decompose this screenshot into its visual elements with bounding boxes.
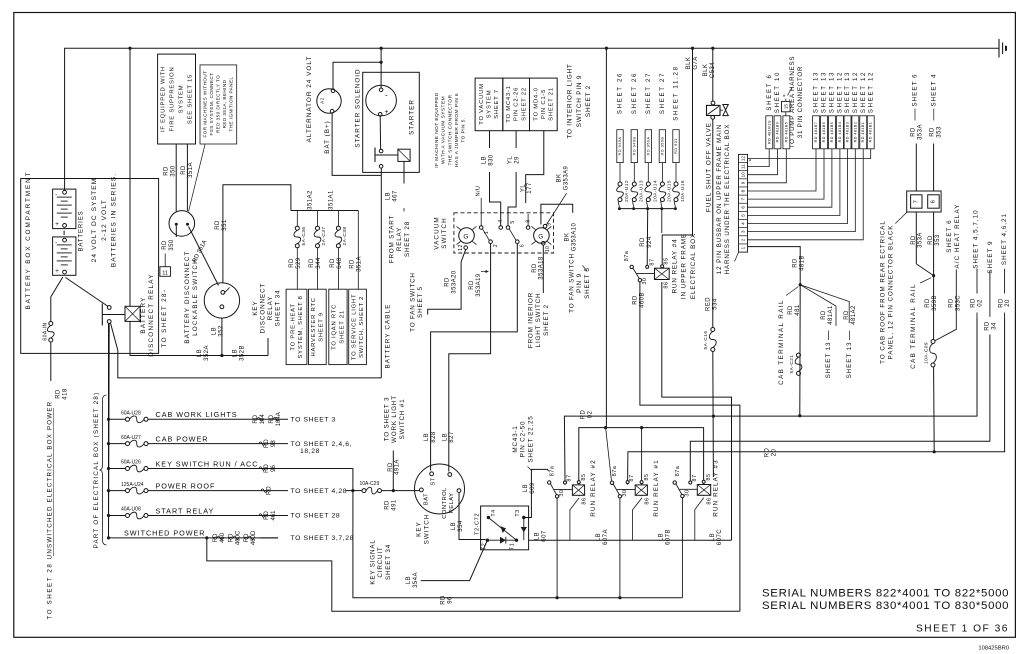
svg-text:RELAY: RELAY <box>267 296 274 321</box>
wire battery positive to disconnect relay contact <box>66 278 109 307</box>
svg-text:RD: RD <box>640 237 646 247</box>
node RD96 relay1-30 <box>618 596 621 599</box>
boxed wire label RD 481B5 <box>783 116 790 149</box>
wire to key disconnect relay <box>267 338 269 356</box>
svg-text:SHEET 21: SHEET 21 <box>339 310 345 344</box>
svg-text:RD: RD <box>289 258 295 268</box>
vacuum pin 1 <box>479 226 483 230</box>
boxed wire label RD 481B9 <box>774 116 781 149</box>
svg-text:02: 02 <box>977 299 983 307</box>
svg-text:15: 15 <box>784 104 790 110</box>
vacuum internal link 1-2 <box>483 229 490 240</box>
svg-text:FSS SYSTEM, CONNECT: FSS SYSTEM, CONNECT <box>209 73 214 136</box>
svg-text:LB: LB <box>481 156 487 164</box>
svg-text:YL: YL <box>508 156 514 164</box>
wire RD 353A into connector 7 <box>915 144 917 192</box>
wire RD 02 right label stub <box>976 269 978 294</box>
svg-text:RD: RD <box>215 220 221 230</box>
boxed wire label RD 481B1 (col 8) <box>867 116 874 149</box>
wire BLK C534 top bus to valve <box>712 48 714 101</box>
terminal box 15 <box>782 101 791 111</box>
svg-text:CONTROL: CONTROL <box>442 487 448 519</box>
svg-text:RD 481B1: RD 481B1 <box>861 122 865 143</box>
svg-text:460: 460 <box>220 532 226 543</box>
node LB352 junction <box>220 354 223 357</box>
svg-text:BK: BK <box>564 233 570 242</box>
svg-text:SHEET 13: SHEET 13 <box>821 71 828 113</box>
svg-text:RD 481B5: RD 481B5 <box>784 122 788 143</box>
connector P1 circle <box>169 211 195 237</box>
fuel shut off valve V1 <box>711 101 715 105</box>
svg-text:T4: T4 <box>491 509 497 516</box>
solenoid coil box <box>398 149 410 161</box>
svg-text:RD 950B: RD 950B <box>659 137 664 156</box>
wire fuse bus to relay4 85 (x=662 upper) <box>661 209 663 233</box>
svg-text:40A-U08: 40A-U08 <box>121 507 141 513</box>
wire RD 351A from FSS box to connector <box>186 144 188 211</box>
svg-text:353A: 353A <box>918 232 924 248</box>
wire N/U stub pin 1 <box>480 198 482 226</box>
svg-text:SHEET 34: SHEET 34 <box>385 544 392 580</box>
svg-text:607C: 607C <box>717 529 723 545</box>
node RD 353 junction <box>932 274 935 277</box>
fuse 20A-U13 <box>632 207 635 210</box>
svg-text:TO CAB ROOF FROM REAR ECTRICAL: TO CAB ROOF FROM REAR ECTRICAL <box>880 220 887 364</box>
svg-text:60A-U28: 60A-U28 <box>121 411 141 417</box>
vacuum pin 12 <box>464 246 468 250</box>
svg-text:1: 1 <box>740 246 745 249</box>
node 85 bus junction relay1 <box>640 426 643 429</box>
svg-text:THE IGNITION PANEL: THE IGNITION PANEL <box>228 77 233 132</box>
wire 85 bus y=427.6 <box>579 428 704 481</box>
svg-text:TO SHEET 3: TO SHEET 3 <box>384 397 391 442</box>
svg-text:86: 86 <box>644 497 650 504</box>
svg-text:TO SHEET 3: TO SHEET 3 <box>291 417 336 424</box>
relay K4 RUN RELAY #3 <box>697 485 710 496</box>
svg-text:RD 949A: RD 949A <box>617 137 622 156</box>
node electrical box row CAB POWER <box>107 442 110 445</box>
svg-text:SHEET 2: SHEET 2 <box>585 85 592 117</box>
svg-text:87: 87 <box>629 474 635 481</box>
svg-text:KEY: KEY <box>416 521 423 537</box>
busbar fan wires left group <box>748 149 770 167</box>
svg-text:SEE SHEET 15: SEE SHEET 15 <box>188 74 194 124</box>
node RD02/RD481 junction <box>798 414 801 417</box>
svg-text:TO SHEET 4,28: TO SHEET 4,28 <box>291 488 348 495</box>
svg-text:RD: RD <box>309 258 315 268</box>
svg-text:RD 931: RD 931 <box>673 138 678 154</box>
wire feeder 605.6 dot down to relay1 87a <box>606 428 612 481</box>
svg-text:353B: 353B <box>932 295 938 311</box>
svg-text:SHEET 2: SHEET 2 <box>543 304 550 336</box>
wire coil feed from top bus <box>129 48 131 306</box>
svg-text:11: 11 <box>162 271 168 277</box>
svg-text:8: 8 <box>525 219 531 222</box>
svg-text:TO VACUUM: TO VACUUM <box>479 83 485 125</box>
svg-text:30: 30 <box>622 489 628 496</box>
svg-text:RD 481B2: RD 481B2 <box>853 122 857 143</box>
svg-text:STARTER SOLENOID: STARTER SOLENOID <box>355 68 362 147</box>
svg-text:RUN RELAY #4: RUN RELAY #4 <box>671 238 678 293</box>
svg-text:RD: RD <box>162 240 168 250</box>
diode T3-T1 <box>523 518 525 541</box>
svg-text:VACUUM: VACUUM <box>433 216 440 249</box>
svg-text:RD: RD <box>998 298 1004 308</box>
svg-text:607: 607 <box>541 530 547 542</box>
boxed wire label RD 481B6 (col 2) <box>821 116 828 149</box>
svg-text:TO SERVICE LIGHT: TO SERVICE LIGHT <box>351 294 357 360</box>
svg-text:SHEET 6: SHEET 6 <box>946 219 953 252</box>
wire RD 353A below connector to junction <box>915 212 917 264</box>
svg-text:SHEET 13: SHEET 13 <box>813 71 820 113</box>
wire relay2 30 to RD96 bus <box>556 498 558 598</box>
svg-text:RD 481B5: RD 481B5 <box>830 122 834 143</box>
wire RD 353 into connector 6 <box>933 144 935 192</box>
wire YL 29 box to pin 5 <box>515 131 517 148</box>
destination box TO IQAN RTC SHEET 21 <box>329 289 347 364</box>
relay K1 battery disconnect relay coil <box>125 306 140 321</box>
wire row SWITCHED POWER <box>109 537 279 539</box>
node cab terminal rail RD481 <box>799 283 802 286</box>
svg-text:ELECTRICAL BOX: ELECTRICAL BOX <box>690 233 697 299</box>
svg-text:96: 96 <box>447 596 453 604</box>
diode T2-T1 <box>487 539 516 541</box>
svg-text:SWITCH: SWITCH <box>441 217 448 248</box>
wire row POWER ROOF <box>109 490 126 492</box>
svg-text:2: 2 <box>740 238 745 241</box>
svg-text:LB: LB <box>535 532 541 540</box>
solenoid motor circle <box>366 85 397 116</box>
svg-text:5: 5 <box>740 214 745 217</box>
svg-text:T3: T3 <box>515 509 521 516</box>
note box IF EQUIPPED WITH FIRE SUPPRESION SYSTEM SEE SHEET 15 <box>158 54 196 144</box>
wire solenoid + to contact <box>379 116 381 149</box>
wire RD 491A to work light switch <box>392 451 394 491</box>
boxed wire label RD 481B5 (col 3) <box>829 116 836 149</box>
vacuum pin 9 <box>543 224 547 228</box>
svg-text:LB: LB <box>442 433 448 441</box>
svg-text:RD: RD <box>788 305 794 315</box>
note box TO VACUUM SYSTEM SHEET 7 <box>475 78 503 131</box>
svg-text:87a: 87a <box>624 250 630 261</box>
svg-text:SHEET 13: SHEET 13 <box>829 71 836 113</box>
svg-text:RD: RD <box>765 448 771 458</box>
svg-text:TO MC43-1: TO MC43-1 <box>506 85 512 122</box>
svg-text:34: 34 <box>991 322 997 330</box>
wire battery link <box>63 231 65 236</box>
fuse 60A-IN <box>49 322 53 326</box>
svg-text:IN UPPER FRAME: IN UPPER FRAME <box>681 233 688 299</box>
svg-text:607B: 607B <box>665 529 671 545</box>
svg-text:HARVESTER RTC: HARVESTER RTC <box>311 297 317 356</box>
svg-text:RED 351A, BEHIND: RED 351A, BEHIND <box>222 79 227 128</box>
svg-text:TO MD4-0: TO MD4-0 <box>533 87 539 120</box>
wire RD 418 down left side <box>50 342 52 381</box>
wire RD 20 net relay1-87 to sheet 4,6,21 <box>628 318 1005 481</box>
svg-text:SHEET 5: SHEET 5 <box>584 267 591 299</box>
vacuum pin 6 <box>516 240 520 244</box>
svg-text:TO FAN SWITCH: TO FAN SWITCH <box>409 272 416 332</box>
fuse 60A-U27 <box>126 442 130 446</box>
svg-text:85: 85 <box>581 473 587 480</box>
wire RD 353 below connector to junction <box>933 212 935 276</box>
svg-text:TO PRE-HEAT: TO PRE-HEAT <box>290 303 296 350</box>
wire LB 830 box to pin 4 <box>489 131 491 148</box>
wire SWITCHED POWER routing <box>207 538 740 611</box>
wire RD 481B busbar to terminal node <box>748 247 801 285</box>
svg-text:3: 3 <box>740 230 745 233</box>
svg-text:LB: LB <box>596 533 602 541</box>
svg-text:12: 12 <box>740 156 745 162</box>
vacuum switch S2 dashed box <box>454 213 554 253</box>
svg-text:12 PIN BUSBAR ON UPPER FRAME M: 12 PIN BUSBAR ON UPPER FRAME MAIN <box>716 124 723 274</box>
wire RD 351A drop to service light box <box>357 211 359 290</box>
svg-text:-: - <box>385 91 388 100</box>
svg-text:RD: RD <box>821 310 827 320</box>
svg-text:PART OF ELECTRICAL BOX (SHEET: PART OF ELECTRICAL BOX (SHEET 28) <box>93 392 100 549</box>
node RD96 relay2-30 <box>556 596 559 599</box>
wire RD 353A18 pin 10 down <box>542 245 544 293</box>
svg-text:TO FAN SWITCH: TO FAN SWITCH <box>569 253 576 313</box>
svg-text:TO PIN 5.: TO PIN 5. <box>460 117 466 142</box>
svg-text:9: 9 <box>740 181 745 184</box>
svg-text:SHEET 13: SHEET 13 <box>844 71 851 113</box>
svg-text:RED 350 DIRECTLY TO: RED 350 DIRECTLY TO <box>216 75 221 133</box>
svg-text:RD: RD <box>532 263 538 273</box>
note box TO MC43-1 PIN C2-26 SHEET 22 <box>503 78 530 131</box>
svg-text:RD: RD <box>229 533 235 542</box>
svg-text:5A-C36: 5A-C36 <box>301 227 307 246</box>
fuse 2A-C38 <box>337 211 339 227</box>
vacuum pin 2 <box>489 240 493 244</box>
brace electrical box <box>100 395 107 545</box>
alternator G1 circle <box>317 89 341 113</box>
svg-text:A/C HEAT RELAY: A/C HEAT RELAY <box>954 204 961 269</box>
callout line to TO FAN SWITCH PIN 9 <box>582 265 587 271</box>
svg-text:FROM INERIOR: FROM INERIOR <box>528 292 535 348</box>
svg-text:TO SHEET 28: TO SHEET 28 <box>47 563 54 620</box>
node switched power branch <box>205 536 208 539</box>
svg-text:10A-C29: 10A-C29 <box>360 481 380 487</box>
wire RD 481 node to 5A-C21 to RD02 wire <box>799 285 801 416</box>
wire LB 828 pin 6 to key switch ST <box>431 244 518 471</box>
svg-text:491: 491 <box>391 499 397 511</box>
svg-text:T1: T1 <box>509 543 515 550</box>
svg-text:SHEET 27: SHEET 27 <box>659 72 666 114</box>
svg-text:LB: LB <box>233 349 239 357</box>
wire main 24V top bus <box>65 48 999 191</box>
svg-text:351A1: 351A1 <box>329 190 335 210</box>
svg-text:SHEET 5: SHEET 5 <box>417 286 424 318</box>
fuse 60A-U28 <box>126 417 130 421</box>
svg-text:RD: RD <box>164 166 170 176</box>
svg-text:IF MACHINE NOT EQUIPPED: IF MACHINE NOT EQUIPPED <box>434 92 440 168</box>
svg-text:RD: RD <box>929 127 935 137</box>
relay K1 battery disconnect relay contact <box>107 306 111 310</box>
svg-text:LB: LB <box>451 522 457 530</box>
fuse 5A-C16 <box>711 328 715 332</box>
svg-text:KEY SIGNAL: KEY SIGNAL <box>370 539 377 584</box>
svg-text:BATTERIES: BATTERIES <box>79 211 85 252</box>
node top bus junction to starter solenoid <box>380 47 383 50</box>
fuse 60A-U26 <box>126 467 130 471</box>
svg-text:10A-C09: 10A-C09 <box>923 342 929 364</box>
svg-text:2-12 VOLT: 2-12 VOLT <box>101 199 108 241</box>
svg-text:CAB TERMINAL RAIL: CAB TERMINAL RAIL <box>778 299 785 385</box>
svg-text:RD: RD <box>350 259 356 269</box>
svg-text:PIN C2-26: PIN C2-26 <box>514 87 520 121</box>
node top bus junction to battery relay <box>128 47 131 50</box>
svg-text:SERIAL NUMBERS 830*4001 TO: SERIAL NUMBERS 830*4001 TO 830*5000 <box>762 600 1009 612</box>
svg-text:827: 827 <box>449 431 455 443</box>
svg-text:DISCONNECT: DISCONNECT <box>259 283 266 334</box>
node RD 491 junction <box>392 489 395 492</box>
svg-text:RD: RD <box>928 235 934 245</box>
svg-text:RD: RD <box>445 277 451 287</box>
wire RD 353C stub <box>935 269 957 341</box>
busbar BB1 12 PIN strip <box>739 154 748 252</box>
svg-text:SHEET 28: SHEET 28 <box>404 221 411 257</box>
svg-text:177: 177 <box>527 182 533 194</box>
node 85 bus junction feeder <box>604 426 607 429</box>
boxed wire label RD 949A <box>617 130 623 163</box>
svg-text:87a: 87a <box>675 465 681 476</box>
svg-text:WITH A VACUUM SYSTEM: WITH A VACUUM SYSTEM <box>441 96 447 164</box>
svg-text:G7A: G7A <box>693 56 699 69</box>
svg-text:CIRCUIT: CIRCUIT <box>377 546 384 577</box>
vacuum switch left gauge circle <box>459 228 475 244</box>
switch S1 battery disconnect lockable switch <box>204 283 239 318</box>
svg-text:2A-C38: 2A-C38 <box>342 227 348 246</box>
svg-text:ST: ST <box>431 477 437 485</box>
svg-text:4: 4 <box>740 222 745 225</box>
svg-text:460D: 460D <box>251 530 257 545</box>
svg-text:SHEET 4,6,21: SHEET 4,6,21 <box>1001 213 1008 265</box>
svg-text:RD: RD <box>469 280 475 290</box>
ground symbol G <box>998 39 1000 58</box>
svg-text:85: 85 <box>663 257 669 264</box>
wire relay1 85 riser <box>641 428 643 481</box>
connector pin box 6 <box>928 195 940 208</box>
fuse 10A-U16 <box>674 207 677 210</box>
svg-text:344: 344 <box>316 257 322 269</box>
wire row KEY SWITCH RUN / ACC <box>109 468 126 470</box>
fuse 5A-C21 <box>797 353 801 357</box>
svg-text:SHEET 21: SHEET 21 <box>548 87 554 121</box>
svg-text:87: 87 <box>649 258 655 265</box>
svg-text:20A-U15: 20A-U15 <box>666 180 672 202</box>
wire RD 350 connector to sheet-28 terminal <box>175 226 177 237</box>
svg-text:FUEL SHUT OFF VALVE: FUEL SHUT OFF VALVE <box>705 122 712 212</box>
svg-text:RD: RD <box>911 127 917 137</box>
svg-text:BLK: BLK <box>686 57 692 70</box>
svg-text:CAB POWER: CAB POWER <box>156 434 209 443</box>
svg-text:RD: RD <box>925 298 931 308</box>
svg-text:RD: RD <box>385 500 391 510</box>
connector pin box 7 <box>911 195 922 208</box>
wire alternator to solenoid vertical <box>333 62 381 89</box>
callout line from FSS note to connector <box>189 145 206 212</box>
wire battery cable from contact down <box>380 168 382 378</box>
destination box HARVESTER RTC SHEET 9 <box>309 289 327 364</box>
wire disconnect contact to battery cable <box>111 323 382 378</box>
wire YL 177 box to pin 8 <box>526 131 544 203</box>
wire LB 354A stub <box>421 540 488 580</box>
wire RD 353B junction to 10A-C09 <box>933 276 935 340</box>
node electrical box row START RELAY <box>107 514 110 517</box>
wire relay1 30 to RD96 bus <box>619 498 621 598</box>
svg-text:LB: LB <box>386 192 392 200</box>
vacuum pin 10 <box>542 242 546 246</box>
wire relay3 86 to LB607 bus <box>695 498 704 541</box>
svg-text:RD: RD <box>911 235 917 245</box>
battery B2 <box>53 237 76 275</box>
svg-text:SWITCH, SHEET 2: SWITCH, SHEET 2 <box>359 296 365 358</box>
terminal T2 <box>486 539 489 542</box>
svg-text:LB: LB <box>197 349 203 357</box>
starter solenoid box <box>363 72 420 172</box>
svg-text:7: 7 <box>740 197 745 200</box>
svg-text:+: + <box>55 221 59 228</box>
busbar fan wires right group <box>748 149 817 191</box>
svg-text:481A1: 481A1 <box>828 305 834 325</box>
fuse 40A-U08 <box>126 514 130 518</box>
svg-text:PIN C1-5: PIN C1-5 <box>541 89 547 119</box>
svg-text:18,28: 18,28 <box>300 448 320 455</box>
wire RD 481A2 stub <box>800 285 849 323</box>
svg-text:LB: LB <box>710 533 716 541</box>
svg-text:481B: 481B <box>799 255 805 271</box>
wire BK G353A9 diagonal from pin 9 <box>546 193 566 225</box>
boxed wire label RD 481B7 (col 1) <box>813 116 820 149</box>
fuse 125A-U24 <box>126 489 130 493</box>
wire fuse-top bus <box>291 210 358 212</box>
svg-text:YL: YL <box>520 184 526 192</box>
svg-text:7: 7 <box>914 200 920 204</box>
wire relay4-86 to LB607C riser <box>662 282 732 540</box>
vacuum pin 4 <box>499 226 503 230</box>
wire row CAB POWER <box>109 443 126 445</box>
wire BK G353A10 from pin 10 up <box>541 204 573 224</box>
wire relay2 86 to LB607 bus <box>570 498 579 540</box>
callout line busbar text <box>735 253 739 262</box>
svg-text:609: 609 <box>530 482 536 494</box>
svg-text:30: 30 <box>642 277 648 284</box>
svg-text:SWITCH: SWITCH <box>423 514 430 545</box>
svg-text:RELAY: RELAY <box>396 227 403 251</box>
svg-text:PANEL, 12 PIN CONNECTOR BLACK: PANEL, 12 PIN CONNECTOR BLACK <box>888 225 895 360</box>
vacuum switch right gauge circle <box>534 228 550 244</box>
svg-text:RD 481B4: RD 481B4 <box>838 122 842 143</box>
svg-text:SHEET 34: SHEET 34 <box>275 290 282 327</box>
svg-text:352: 352 <box>218 325 224 337</box>
svg-text:6: 6 <box>519 244 525 247</box>
svg-text:491A: 491A <box>395 459 401 475</box>
svg-text:RD 481B7: RD 481B7 <box>814 122 818 143</box>
svg-text:467: 467 <box>392 190 398 202</box>
svg-text:SHEET 12: SHEET 12 <box>860 71 867 113</box>
wire RD 20 right label stub <box>1004 269 1006 294</box>
svg-text:G: G <box>538 233 543 240</box>
terminal T1 <box>515 539 518 542</box>
svg-text:SHEET 4: SHEET 4 <box>930 73 937 106</box>
svg-text:RD: RD <box>264 464 270 473</box>
svg-text:G: G <box>463 233 468 240</box>
svg-text:BLK: BLK <box>703 64 709 77</box>
svg-text:SHEET 22,25: SHEET 22,25 <box>527 415 534 462</box>
svg-text:TO SHEET 2,4,6,: TO SHEET 2,4,6, <box>291 441 353 448</box>
svg-text:352B: 352B <box>239 345 245 361</box>
